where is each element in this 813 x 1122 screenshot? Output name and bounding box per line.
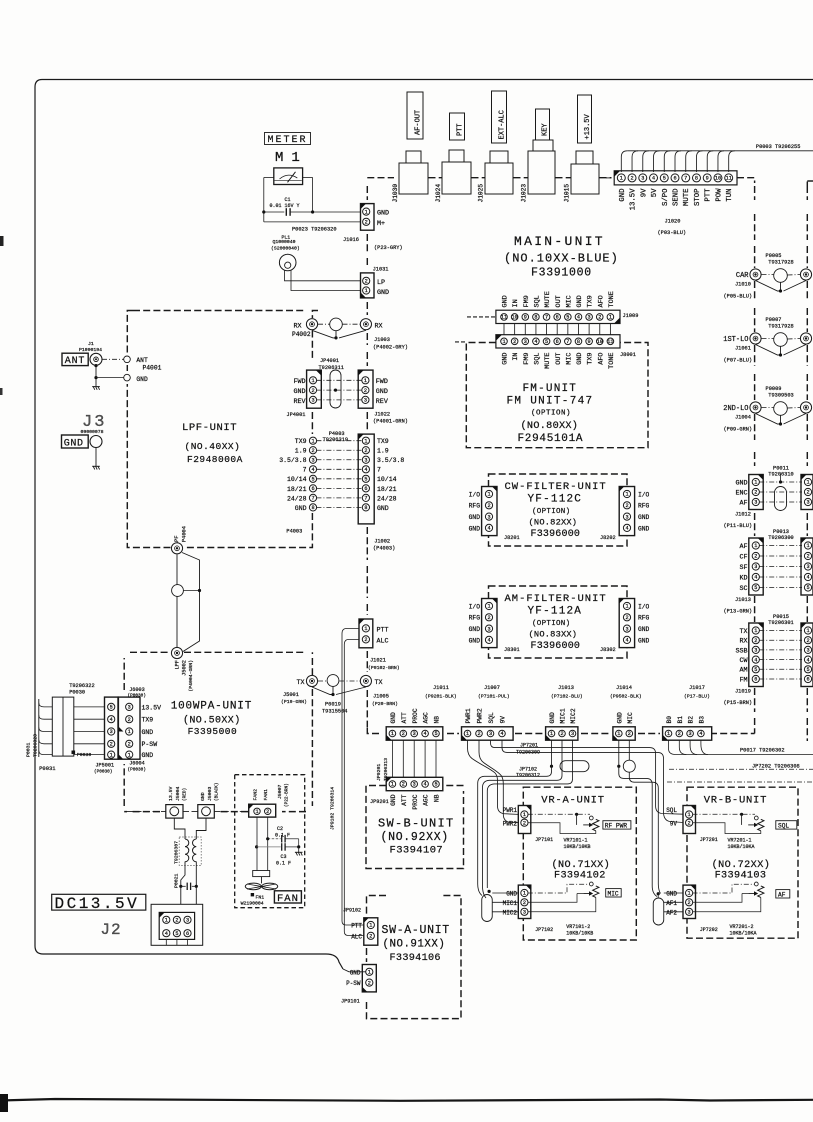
label box SQL: [776, 821, 797, 829]
cable ribbon P0030: [52, 697, 74, 756]
svg-text:2: 2: [364, 388, 367, 394]
svg-text:TUN: TUN: [726, 189, 734, 202]
svg-text:GND: GND: [469, 514, 481, 521]
svg-text:FN1: FN1: [256, 894, 265, 900]
svg-text:(OPTION): (OPTION): [532, 508, 570, 516]
svg-text:P4001: P4001: [143, 365, 162, 372]
svg-text:1: 1: [620, 176, 623, 182]
svg-text:1: 1: [487, 492, 490, 498]
connector J8001: [496, 335, 620, 348]
svg-text:TX9: TX9: [142, 717, 154, 724]
svg-text:5: 5: [434, 782, 437, 788]
wires J1014 down to VR-B AF cable: [617, 765, 620, 768]
svg-text:P4004: P4004: [182, 526, 188, 542]
svg-text:(P4003): (P4003): [373, 546, 395, 552]
svg-text:I/O: I/O: [469, 491, 481, 498]
connector J1002 (band lines): [358, 434, 374, 524]
svg-text:RX: RX: [739, 638, 747, 646]
svg-text:3: 3: [689, 731, 692, 737]
svg-text:8: 8: [695, 176, 698, 182]
svg-text:J5004: J5004: [175, 786, 181, 801]
svg-text:VR7101-2: VR7101-2: [566, 924, 590, 930]
svg-text:TONE: TONE: [608, 291, 616, 307]
svg-text:9: 9: [524, 315, 527, 321]
capacitor C1: [262, 210, 265, 213]
svg-text:SF: SF: [739, 564, 747, 572]
svg-text:STOP: STOP: [694, 189, 702, 207]
svg-text:2: 2: [754, 554, 757, 560]
svg-text:SQL: SQL: [534, 295, 542, 307]
svg-text:1: 1: [369, 923, 372, 929]
svg-text:2ND-LO: 2ND-LO: [723, 405, 748, 413]
wire bus to terminals: [127, 811, 166, 813]
svg-text:J1013: J1013: [735, 597, 751, 603]
meter M1 symbol: [274, 168, 303, 185]
svg-text:2: 2: [311, 388, 314, 394]
cable circle P6019: [327, 675, 339, 687]
svg-text:PROC: PROC: [412, 708, 419, 723]
svg-text:2: 2: [365, 279, 368, 285]
svg-text:MIC2: MIC2: [570, 708, 577, 723]
svg-text:18/21: 18/21: [377, 486, 397, 493]
svg-text:F3396000: F3396000: [531, 641, 581, 652]
svg-text:P6019: P6019: [325, 702, 341, 708]
svg-text:5: 5: [311, 477, 314, 483]
svg-text:P0009: P0009: [766, 386, 782, 392]
svg-text:F3391000: F3391000: [531, 267, 592, 280]
wires P4003 to J1002: [316, 440, 362, 442]
svg-text:3: 3: [806, 564, 809, 570]
svg-text:J1020: J1020: [665, 219, 681, 225]
svg-text:2: 2: [598, 315, 601, 321]
potentiometer VR7101-1 (RF PWR): [528, 813, 590, 815]
connector JP5001: [105, 697, 119, 759]
svg-text:SEND: SEND: [673, 188, 681, 206]
svg-text:3: 3: [625, 626, 628, 632]
svg-text:9: 9: [706, 176, 709, 182]
svg-text:5: 5: [806, 585, 809, 591]
svg-text:1: 1: [311, 378, 314, 384]
svg-text:4: 4: [806, 657, 809, 663]
svg-text:7: 7: [377, 467, 381, 474]
capacitor C3: [255, 845, 258, 848]
svg-text:P4003: P4003: [286, 529, 302, 535]
left margin specks: [0, 236, 4, 246]
connector J1016 (GND/M+): [361, 204, 375, 231]
svg-text:T9206323: T9206323: [33, 734, 39, 757]
svg-text:(P05-BLU): (P05-BLU): [724, 294, 753, 300]
svg-text:FAN1: FAN1: [263, 789, 269, 801]
svg-text:(OPTION): (OPTION): [531, 410, 571, 418]
svg-text:T9206307: T9206307: [174, 841, 180, 864]
svg-text:GND: GND: [200, 792, 206, 801]
svg-text:(NO.40XX): (NO.40XX): [185, 441, 241, 452]
svg-text:JP7202 T9206308: JP7202 T9206308: [752, 763, 800, 769]
svg-text:TX9: TX9: [377, 438, 389, 445]
svg-text:P-SW: P-SW: [346, 980, 361, 987]
svg-text:F3394107: F3394107: [390, 845, 444, 857]
svg-text:1: 1: [368, 970, 371, 976]
svg-text:J5002: J5002: [182, 660, 188, 676]
svg-text:4: 4: [652, 176, 655, 182]
wires choke to J2: [181, 862, 185, 905]
svg-text:LPF-UNIT: LPF-UNIT: [182, 422, 237, 434]
connector JP7102 (GND/MIC1/MIC2): [518, 885, 531, 918]
FAN dashed box: [235, 775, 305, 908]
svg-text:FWD: FWD: [376, 378, 388, 386]
svg-text:(P7101-PUL): (P7101-PUL): [478, 694, 510, 700]
svg-text:3: 3: [487, 626, 490, 632]
svg-text:5: 5: [434, 731, 437, 737]
svg-text:13.5V: 13.5V: [630, 188, 638, 211]
svg-text:B0: B0: [666, 716, 673, 724]
svg-text:JP9102 T9206314: JP9102 T9206314: [330, 787, 336, 830]
coax jack TX J1005: [360, 675, 371, 686]
svg-text:MIC: MIC: [608, 890, 619, 897]
svg-text:6: 6: [673, 176, 676, 182]
VR-A-UNIT dashed box: [523, 787, 636, 940]
svg-text:0.1 F: 0.1 F: [275, 833, 290, 839]
cable oval VR-B af: [653, 898, 664, 925]
svg-text:P0023 T9206320: P0023 T9206320: [292, 226, 337, 232]
svg-text:5: 5: [806, 667, 809, 673]
svg-text:J1061: J1061: [735, 346, 751, 352]
svg-text:FM9: FM9: [523, 295, 531, 307]
svg-text:(NO.82XX): (NO.82XX): [529, 518, 578, 528]
svg-text:J5003: J5003: [207, 786, 213, 801]
svg-text:8: 8: [534, 315, 537, 321]
svg-text:5V: 5V: [651, 188, 659, 197]
svg-text:T9315504: T9315504: [322, 709, 347, 715]
bottom scan edge line: [0, 1099, 813, 1101]
cable circle: [172, 585, 184, 597]
svg-text:F3394103: F3394103: [715, 871, 767, 882]
svg-text:(NO.72XX): (NO.72XX): [712, 859, 771, 871]
svg-text:B1: B1: [677, 716, 684, 724]
svg-text:M+: M+: [377, 220, 385, 228]
VR-B-UNIT dashed box: [687, 787, 798, 938]
svg-text:T9317928: T9317928: [768, 260, 793, 266]
sheet border frame: [35, 80, 813, 970]
svg-text:J1011: J1011: [433, 685, 449, 691]
svg-text:2: 2: [128, 717, 131, 723]
svg-text:(P23-GRY): (P23-GRY): [374, 245, 403, 251]
svg-text:ALC: ALC: [351, 933, 362, 940]
svg-text:8: 8: [577, 339, 580, 345]
svg-text:J8301: J8301: [504, 647, 520, 653]
svg-text:2: 2: [523, 900, 526, 906]
svg-text:(NO.50XX): (NO.50XX): [183, 714, 241, 726]
svg-text:24/28: 24/28: [377, 495, 397, 502]
svg-text:AFO: AFO: [597, 295, 605, 307]
svg-text:J1: J1: [88, 341, 94, 347]
svg-text:GND: GND: [469, 626, 481, 633]
svg-text:DC13.5V: DC13.5V: [55, 895, 140, 913]
svg-text:F3395000: F3395000: [188, 726, 238, 737]
svg-text:2: 2: [368, 980, 371, 986]
choke coils: [185, 839, 189, 862]
svg-text:4: 4: [806, 575, 809, 581]
100WPA-UNIT dashed box: [124, 652, 312, 811]
svg-text:J1023: J1023: [521, 184, 528, 203]
svg-text:GND: GND: [136, 376, 148, 383]
svg-text:6: 6: [364, 486, 367, 492]
svg-text:9V: 9V: [500, 716, 507, 724]
svg-text:J1009: J1009: [623, 313, 639, 319]
svg-text:10: 10: [597, 339, 603, 345]
wire J1 to ANT node: [102, 358, 124, 360]
connector J1009: [496, 310, 620, 323]
svg-text:AGC: AGC: [423, 712, 430, 724]
svg-text:2: 2: [175, 918, 178, 924]
jack J1023 with KEY label: [536, 109, 550, 140]
connector JP7201 (SQL/9V): [683, 806, 696, 834]
svg-text:13.5V: 13.5V: [142, 704, 162, 711]
svg-text:PWR1: PWR1: [503, 807, 518, 814]
svg-text:JP9102: JP9102: [343, 908, 361, 914]
svg-text:4: 4: [699, 731, 702, 737]
svg-text:MIC: MIC: [565, 353, 573, 365]
svg-text:(P22-BRN): (P22-BRN): [285, 783, 290, 807]
cable oval VR-A mic: [482, 895, 493, 922]
J2 bottom stubs: [165, 939, 167, 945]
coax jack RX J1003: [360, 319, 371, 330]
svg-text:POW: POW: [715, 188, 723, 202]
svg-text:F2945101A: F2945101A: [518, 433, 584, 445]
svg-text:2: 2: [487, 503, 490, 509]
svg-text:JP7102: JP7102: [535, 927, 553, 933]
svg-text:2: 2: [110, 742, 113, 748]
svg-text:GND: GND: [506, 891, 517, 898]
label box MIC: [606, 889, 622, 897]
svg-text:PROC: PROC: [412, 794, 419, 809]
svg-text:P0030: P0030: [77, 752, 92, 758]
svg-text:(BLACK): (BLACK): [215, 783, 220, 801]
connector JP7202 (GND/AF1/AF2): [683, 885, 696, 918]
wire stub J1009 left: [467, 316, 495, 318]
svg-text:GND: GND: [377, 505, 389, 512]
svg-text:MIC2: MIC2: [503, 909, 518, 916]
svg-text:7: 7: [545, 315, 548, 321]
svg-text:1.9: 1.9: [377, 448, 389, 455]
svg-text:3: 3: [487, 514, 490, 520]
svg-text:TX9: TX9: [587, 353, 595, 365]
svg-text:P-SW: P-SW: [142, 741, 158, 748]
svg-text:J1024: J1024: [435, 184, 442, 203]
svg-text:(P9502-BLK): (P9502-BLK): [610, 694, 642, 700]
svg-text:1: 1: [754, 543, 757, 549]
svg-text:3: 3: [806, 648, 809, 654]
svg-text:J1004: J1004: [735, 415, 751, 421]
coax shield wires TX: [312, 687, 366, 695]
ground (fan caps): [298, 847, 300, 852]
svg-text:P0007: P0007: [766, 317, 782, 323]
connector J8301: [482, 599, 497, 648]
svg-text:5: 5: [364, 477, 367, 483]
svg-text:B2: B2: [688, 716, 695, 724]
svg-text:1: 1: [364, 378, 367, 384]
svg-text:SW-B-UNIT: SW-B-UNIT: [378, 817, 455, 831]
svg-text:AF2: AF2: [666, 909, 677, 916]
svg-text:T9206322: T9206322: [69, 683, 94, 689]
svg-text:(P4002-GRY): (P4002-GRY): [373, 345, 408, 351]
svg-text:M1: M1: [275, 150, 308, 166]
svg-text:P1090194: P1090194: [79, 347, 102, 353]
svg-text:J8201: J8201: [504, 535, 520, 541]
ground (J3): [92, 465, 100, 467]
svg-text:I/O: I/O: [638, 491, 650, 498]
svg-text:4: 4: [754, 575, 757, 581]
svg-text:1: 1: [110, 752, 113, 758]
svg-text:5: 5: [663, 176, 666, 182]
svg-text:P4003: P4003: [329, 431, 345, 437]
coax plug LPF J5002: [171, 647, 182, 658]
svg-text:(P0030): (P0030): [128, 693, 146, 698]
svg-text:4: 4: [165, 931, 168, 937]
svg-text:GND: GND: [619, 188, 627, 202]
svg-text:(P9201-BLK): (P9201-BLK): [425, 694, 457, 700]
svg-text:(NO.91XX): (NO.91XX): [383, 939, 446, 951]
svg-text:T9317928: T9317928: [768, 324, 793, 330]
wire JP7202 bus: [669, 768, 813, 770]
label METER: [265, 133, 311, 145]
svg-text:0.1 F: 0.1 F: [276, 861, 291, 867]
svg-text:7: 7: [311, 496, 314, 502]
svg-text:2: 2: [523, 820, 526, 826]
MAIN-UNIT bottom boundary segments: [447, 733, 459, 735]
svg-text:JP5001: JP5001: [95, 763, 114, 769]
svg-text:3: 3: [588, 315, 591, 321]
svg-text:4: 4: [424, 782, 427, 788]
svg-text:T9206312: T9206312: [516, 772, 540, 778]
svg-text:JP9101: JP9101: [341, 999, 360, 1005]
svg-text:(P7102-BLU): (P7102-BLU): [551, 694, 583, 700]
svg-text:MUTE: MUTE: [683, 189, 691, 207]
wire stub FM box left: [455, 341, 465, 343]
svg-text:T9206319: T9206319: [323, 437, 348, 443]
svg-text:I/O: I/O: [469, 603, 481, 610]
svg-text:T9309503: T9309503: [768, 393, 793, 399]
svg-text:GND: GND: [469, 525, 481, 532]
svg-text:SSB: SSB: [735, 647, 747, 655]
svg-text:GND: GND: [502, 352, 510, 364]
svg-text:3: 3: [571, 731, 574, 737]
wire lamp to J1031 GND: [291, 270, 361, 290]
svg-text:REV: REV: [376, 398, 388, 406]
bus P0003 T9206255: [627, 150, 813, 152]
svg-text:T9206311: T9206311: [319, 365, 344, 371]
svg-text:1: 1: [364, 438, 367, 444]
svg-text:J1030: J1030: [392, 184, 399, 203]
svg-text:1: 1: [128, 729, 131, 735]
svg-text:+13.5V: +13.5V: [584, 113, 592, 139]
svg-text:SC: SC: [739, 585, 747, 593]
SW-B-UNIT dashed box: [366, 786, 464, 869]
svg-text:7: 7: [364, 496, 367, 502]
svg-text:5: 5: [566, 315, 569, 321]
svg-text:2: 2: [560, 731, 563, 737]
potentiometer VR7201-2 (AF): [693, 884, 755, 893]
potentiometer VR7101-2 (MIC): [528, 884, 590, 893]
LPF-UNIT dashed box: [127, 311, 318, 548]
svg-text:4: 4: [500, 731, 503, 737]
svg-text:3: 3: [311, 457, 314, 463]
connector J2 block: [151, 904, 203, 945]
jack J1030 with AF-OUT label: [407, 92, 423, 139]
svg-text:MIC: MIC: [565, 295, 573, 307]
svg-text:5: 5: [545, 339, 548, 345]
svg-text:RFG: RFG: [638, 615, 650, 622]
svg-text:2: 2: [625, 615, 628, 621]
svg-text:J1031: J1031: [373, 267, 389, 273]
coax plug TX J5001: [306, 675, 317, 686]
svg-text:7: 7: [684, 176, 687, 182]
svg-text:2: 2: [364, 637, 367, 643]
svg-text:1: 1: [688, 812, 691, 818]
cable oval below J1013: [560, 761, 589, 772]
svg-text:P0021: P0021: [174, 873, 180, 888]
svg-text:3: 3: [754, 564, 757, 570]
svg-text:1ST-LO: 1ST-LO: [723, 336, 748, 344]
svg-text:2: 2: [365, 220, 368, 226]
svg-text:3: 3: [489, 731, 492, 737]
svg-text:T9206300: T9206300: [768, 535, 793, 541]
svg-text:3: 3: [128, 705, 131, 711]
svg-text:ANT: ANT: [136, 357, 148, 364]
svg-text:3: 3: [311, 398, 314, 404]
label box AF: [776, 890, 790, 898]
ground (antenna): [92, 386, 100, 388]
svg-text:5: 5: [175, 931, 178, 937]
svg-text:J8001: J8001: [620, 352, 636, 358]
wires J1009 to J8001: [503, 324, 505, 335]
svg-text:FAN: FAN: [277, 893, 299, 905]
svg-text:3: 3: [524, 339, 527, 345]
svg-text:PWR2: PWR2: [503, 820, 518, 827]
svg-text:3: 3: [413, 782, 416, 788]
svg-text:7: 7: [303, 467, 307, 474]
jack J1025 with EXT-ALC label: [492, 91, 507, 143]
svg-text:T9206301: T9206301: [768, 620, 793, 626]
svg-text:GND: GND: [142, 752, 154, 759]
svg-text:REV: REV: [293, 398, 305, 406]
svg-text:JP4001: JP4001: [320, 358, 339, 364]
svg-text:5: 5: [110, 705, 113, 711]
svg-text:3: 3: [523, 910, 526, 916]
svg-text:09000078: 09000078: [81, 429, 104, 435]
svg-text:2: 2: [513, 339, 516, 345]
svg-text:2: 2: [806, 490, 809, 496]
svg-text:4: 4: [311, 467, 314, 473]
wires PTT/ALC down to JP9102: [342, 628, 364, 925]
svg-text:24/28: 24/28: [287, 495, 307, 502]
svg-text:J1012: J1012: [735, 512, 751, 518]
svg-text:METER: METER: [268, 135, 308, 146]
wires J1011 to JP9201: [391, 740, 393, 777]
svg-text:TX: TX: [739, 628, 747, 636]
svg-text:MAIN-UNIT: MAIN-UNIT: [514, 234, 605, 249]
svg-text:TONE: TONE: [608, 353, 616, 369]
svg-text:(P0030): (P0030): [94, 770, 112, 775]
svg-text:T9206309: T9206309: [516, 749, 540, 755]
svg-text:NB: NB: [434, 716, 441, 724]
svg-text:10KB/10KB: 10KB/10KB: [566, 931, 593, 937]
svg-text:AFO: AFO: [597, 353, 605, 365]
right unit dashed boundary: [806, 186, 808, 741]
svg-text:EXT-ALC: EXT-ALC: [499, 110, 507, 139]
svg-text:1: 1: [523, 891, 526, 897]
svg-text:FM9: FM9: [523, 353, 531, 365]
